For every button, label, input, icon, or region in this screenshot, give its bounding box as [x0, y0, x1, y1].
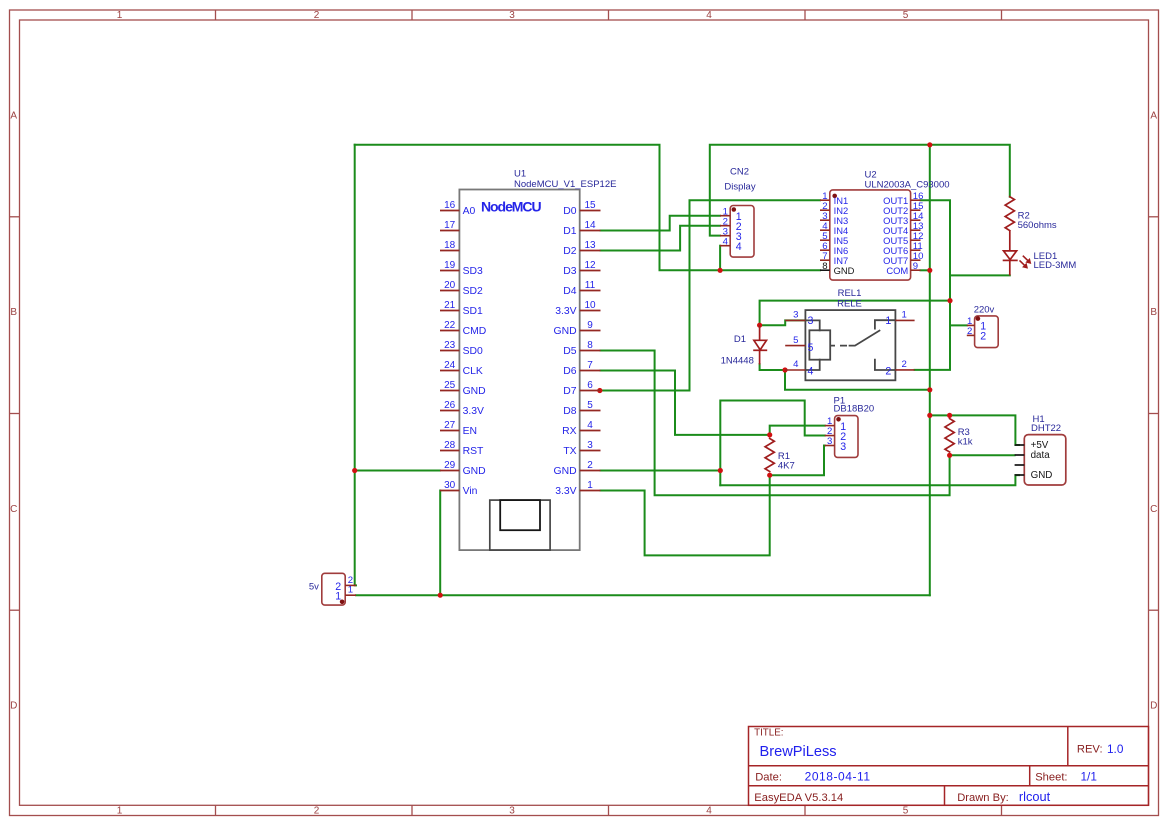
U2 pin 14 OUT3 [883, 211, 924, 226]
U1 pin 17 [440, 220, 459, 231]
U1 pin 24 [440, 360, 483, 377]
junction [947, 413, 952, 418]
svg-text:1: 1 [117, 806, 123, 817]
svg-text:1.0: 1.0 [1107, 742, 1124, 756]
svg-text:7: 7 [587, 360, 593, 371]
U2 pin 12 OUT5 [883, 231, 923, 246]
svg-text:5: 5 [808, 342, 814, 354]
REL1 pin 3 [785, 310, 813, 328]
U2 pin 2 IN2 [820, 201, 848, 216]
svg-text:3: 3 [827, 436, 832, 447]
svg-text:LED-3MM: LED-3MM [1034, 260, 1077, 271]
diode D1 1N4448 [753, 325, 767, 364]
svg-text:data: data [1031, 450, 1051, 461]
wire U1 pin29 GND to x354 vertical [355, 470, 440, 472]
svg-text:2: 2 [980, 331, 986, 343]
connector CN2 Display [730, 206, 754, 258]
junction [767, 473, 772, 478]
U2 pin 7 IN7 [820, 251, 848, 266]
svg-text:rlcout: rlcout [1019, 789, 1051, 804]
junction [718, 468, 723, 473]
svg-text:D3: D3 [563, 266, 577, 277]
svg-text:220v: 220v [974, 304, 995, 315]
svg-text:23: 23 [444, 340, 456, 351]
svg-text:28: 28 [444, 440, 456, 451]
wire GND net to H1 GND [720, 475, 1019, 485]
U1 pin 14 [563, 220, 600, 237]
svg-text:21: 21 [444, 300, 456, 311]
svg-text:13: 13 [584, 240, 596, 251]
svg-text:2: 2 [902, 359, 907, 370]
wire REL1 pin4 junction down to x930 [785, 370, 930, 390]
svg-text:5: 5 [903, 806, 909, 817]
U1 pin 5 [563, 400, 600, 417]
IC U1 NodeMCU_V1_ESP12E [459, 190, 579, 551]
svg-text:3.3V: 3.3V [463, 406, 484, 417]
wire R1 top to P1 pin1 [770, 426, 825, 435]
U1 pin 7 [563, 360, 600, 377]
svg-text:GND: GND [834, 265, 855, 276]
H1 pin 4 GND [1015, 470, 1053, 481]
220v pin 1 [967, 316, 986, 333]
U2 pin 6 IN6 [820, 241, 848, 256]
wire R3 bottom to H1 data [950, 454, 1015, 456]
svg-text:RST: RST [463, 446, 484, 457]
svg-text:17: 17 [444, 220, 456, 231]
svg-text:4: 4 [808, 366, 814, 378]
svg-text:D: D [1150, 701, 1157, 712]
svg-text:560ohms: 560ohms [1018, 220, 1057, 231]
wire D1 anode net to x950 [760, 301, 950, 326]
220v pin1 marker [976, 316, 981, 321]
svg-text:22: 22 [444, 320, 456, 331]
REL1 pin 5 [785, 335, 813, 354]
resistor R2 zigzag [1005, 197, 1014, 231]
wire U2 OUT1 down right side to REL1 pin2 [915, 200, 950, 370]
U2 pin 13 OUT4 [883, 221, 923, 236]
wire bottom rail from 5v pin1 [356, 594, 930, 596]
svg-text:1: 1 [587, 480, 593, 491]
svg-text:15: 15 [584, 200, 596, 211]
svg-text:D0: D0 [563, 206, 577, 217]
U2 pin 3 IN3 [820, 211, 848, 226]
wire U1 GND(2) to junction x720 [601, 470, 721, 472]
U1 pin 10 [555, 300, 600, 317]
U1 pin 28 [440, 440, 484, 457]
svg-text:3: 3 [509, 806, 515, 817]
svg-text:19: 19 [444, 260, 456, 271]
svg-text:TITLE:: TITLE: [754, 728, 783, 739]
U1 pin 6 [563, 380, 600, 397]
CN2 pin 3 [720, 226, 742, 243]
svg-text:10: 10 [584, 300, 596, 311]
IC U2 ULN2003A_C93000 [830, 190, 911, 280]
resistor R1 zigzag [765, 439, 774, 472]
svg-text:Drawn By:: Drawn By: [957, 792, 1009, 804]
svg-text:Date:: Date: [755, 771, 782, 783]
U2 pin 16 OUT1 [883, 191, 923, 206]
svg-text:5v: 5v [309, 582, 319, 593]
U1 pin 11 [563, 280, 600, 297]
REL1 pin 1 [885, 310, 914, 328]
wire top from CN2 pin3 corner to R2 [710, 145, 1010, 236]
svg-text:3: 3 [808, 315, 814, 327]
wire R1 bottom to P1 pin3 [770, 446, 825, 476]
junction [927, 413, 932, 418]
junction [947, 298, 952, 303]
svg-text:3: 3 [587, 440, 593, 451]
svg-text:4: 4 [793, 359, 799, 370]
wire U2 COM to x930 vertical [921, 269, 930, 271]
svg-text:9: 9 [587, 320, 593, 331]
svg-text:U1: U1 [514, 169, 526, 180]
svg-text:k1k: k1k [958, 436, 973, 447]
REL1 pin 2 [885, 359, 914, 377]
svg-text:D8: D8 [563, 406, 577, 417]
wire D1 anode to REL1 pin3 [760, 320, 806, 325]
svg-text:A: A [10, 110, 17, 121]
5v pin 1 [335, 585, 356, 603]
svg-text:5: 5 [903, 10, 909, 21]
220v pin 2 [967, 326, 986, 343]
wire x950 to 220v pin1 [950, 324, 967, 326]
junction [352, 468, 357, 473]
junction [757, 323, 762, 328]
svg-text:8: 8 [822, 261, 827, 272]
junction [927, 268, 932, 273]
svg-text:25: 25 [444, 380, 456, 391]
H1 pin 3 [1015, 464, 1025, 466]
svg-text:3: 3 [509, 10, 515, 21]
svg-text:EN: EN [463, 426, 477, 437]
svg-text:1/1: 1/1 [1081, 770, 1097, 784]
U1 pin 3 [563, 440, 600, 457]
svg-text:11: 11 [585, 280, 596, 291]
svg-text:4: 4 [736, 241, 742, 253]
svg-text:B: B [1150, 307, 1157, 318]
svg-text:29: 29 [444, 460, 456, 471]
svg-text:B: B [10, 307, 17, 318]
U1 pin 27 [440, 420, 477, 437]
U2 pin 10 OUT7 [883, 251, 923, 266]
connector 220v [975, 316, 999, 348]
CN2 pin 4 [720, 236, 742, 253]
svg-text:5: 5 [793, 335, 798, 346]
junction [927, 387, 932, 392]
5v pin 2 [335, 575, 356, 593]
junction [597, 388, 602, 393]
svg-text:4: 4 [587, 420, 593, 431]
wire LED1 cathode to x950 vertical [950, 274, 1010, 276]
svg-text:3: 3 [840, 441, 846, 453]
svg-text:1: 1 [885, 315, 891, 327]
U1 pin 15 [563, 200, 600, 217]
svg-text:COM: COM [886, 265, 908, 276]
svg-text:BrewPiLess: BrewPiLess [760, 744, 837, 760]
svg-text:3: 3 [793, 310, 798, 321]
svg-text:1: 1 [117, 10, 123, 21]
U2 pin 9 COM [886, 261, 920, 276]
U2 pin 4 IN4 [820, 221, 848, 236]
wire U1 3.3V(1) to R1 bottom [601, 475, 770, 555]
U2 pin 11 OUT6 [883, 241, 923, 256]
U1 pin 30 [440, 480, 478, 497]
svg-text:EasyEDA V5.3.14: EasyEDA V5.3.14 [754, 792, 843, 804]
svg-text:1: 1 [348, 585, 353, 596]
connector 5v [322, 573, 345, 605]
U2 pin1 marker [832, 194, 837, 199]
svg-text:D6: D6 [563, 366, 577, 377]
U2 pin 8 GND [820, 261, 855, 276]
svg-text:D7: D7 [563, 386, 577, 397]
svg-text:TX: TX [563, 446, 576, 457]
U1 pin 9 [554, 320, 601, 337]
junction [767, 432, 772, 437]
svg-text:REV:: REV: [1077, 744, 1103, 756]
wire U1 Vin(30) down to bottom rail [439, 491, 441, 596]
svg-text:2: 2 [587, 460, 593, 471]
U1 pin 18 [440, 240, 459, 251]
svg-text:4: 4 [723, 236, 729, 247]
U1 pin 23 [440, 340, 483, 357]
svg-text:CN2: CN2 [730, 167, 749, 178]
svg-text:CLK: CLK [463, 366, 483, 377]
U1 pin 21 [440, 300, 483, 317]
svg-text:RELE: RELE [837, 299, 862, 310]
junction [947, 453, 952, 458]
U1 pin 13 [563, 240, 600, 257]
U1 pin 22 [440, 320, 486, 337]
svg-text:D2: D2 [563, 246, 577, 257]
svg-text:SD3: SD3 [463, 266, 483, 277]
svg-text:ULN2003A_C93000: ULN2003A_C93000 [865, 180, 950, 191]
wire D1 cathode to REL1 pin4 [760, 364, 785, 370]
P1 pin1 marker [836, 417, 841, 422]
H1 pin 2 data [1015, 450, 1051, 461]
svg-text:GND: GND [554, 326, 577, 337]
svg-text:NodeMCU_V1_ESP12E: NodeMCU_V1_ESP12E [514, 179, 616, 190]
svg-text:D5: D5 [563, 346, 577, 357]
svg-text:1N4448: 1N4448 [721, 356, 754, 367]
CN2 pin1 marker [732, 207, 737, 212]
U1 pin 29 [440, 460, 486, 477]
svg-text:D4: D4 [563, 286, 577, 297]
svg-text:RX: RX [562, 426, 577, 437]
REL1 pin 4 [785, 359, 813, 377]
relay REL1 RELE [805, 310, 895, 380]
svg-text:3.3V: 3.3V [555, 486, 576, 497]
wire top-left from 5v net to vertical x660 [355, 145, 820, 270]
U2 pin 5 IN5 [820, 231, 848, 246]
svg-text:1: 1 [335, 591, 341, 603]
H1 pin 1 +5V [1015, 440, 1049, 451]
CN2 pin 2 [720, 216, 742, 233]
junction [927, 142, 932, 147]
svg-text:GND: GND [554, 466, 577, 477]
wire CN2 pin4 down to GND net [719, 246, 721, 271]
svg-text:14: 14 [584, 220, 596, 231]
U1 pin 8 [563, 340, 600, 357]
svg-text:GND: GND [463, 466, 486, 477]
U1 pin 16 [440, 200, 476, 217]
U1 pin 1 [555, 480, 600, 497]
U1 pin 25 [440, 380, 486, 397]
P1 pin 2 [825, 426, 846, 443]
U1 pin 4 [562, 420, 600, 437]
svg-text:REL1: REL1 [838, 288, 862, 299]
svg-text:16: 16 [444, 200, 456, 211]
svg-text:Vin: Vin [463, 486, 478, 497]
U1 pin 2 [554, 460, 601, 477]
svg-text:30: 30 [444, 480, 456, 491]
svg-text:18: 18 [444, 240, 456, 251]
junction [718, 268, 723, 273]
svg-text:24: 24 [444, 360, 456, 371]
svg-text:A0: A0 [463, 206, 476, 217]
svg-text:SD2: SD2 [463, 286, 483, 297]
svg-text:2: 2 [967, 326, 972, 337]
svg-text:1: 1 [902, 310, 907, 321]
U1 pin 19 [440, 260, 483, 277]
svg-text:2: 2 [314, 806, 320, 817]
svg-text:20: 20 [444, 280, 456, 291]
svg-text:Display: Display [724, 181, 755, 192]
svg-text:DHT22: DHT22 [1031, 423, 1061, 434]
svg-text:4: 4 [706, 10, 712, 21]
U1 pin 20 [440, 280, 483, 297]
svg-text:2018-04-11: 2018-04-11 [805, 770, 871, 784]
svg-text:GND: GND [463, 386, 486, 397]
sensor H1 DHT22 [1024, 435, 1066, 485]
U2 pin 1 IN1 [820, 191, 848, 206]
svg-text:DB18B20: DB18B20 [834, 404, 875, 415]
svg-text:12: 12 [584, 260, 596, 271]
wire R3 bottom to U1 D5(8) [601, 351, 950, 496]
U1 pin 26 [440, 400, 484, 417]
svg-text:SD1: SD1 [463, 306, 483, 317]
svg-text:4: 4 [706, 806, 712, 817]
wire left vertical x354 from top to 5v pin2 [355, 145, 356, 586]
title block [749, 727, 1149, 806]
wire main vertical x930 [929, 145, 931, 595]
svg-text:27: 27 [444, 420, 456, 431]
wire U1 D1(14) to CN2 pin1 [601, 216, 721, 231]
svg-text:C: C [10, 504, 17, 515]
junction [782, 367, 787, 372]
U1 pin 12 [563, 260, 600, 277]
LED LED1 LED-3MM [1003, 231, 1030, 276]
U2 pin 15 OUT2 [883, 201, 923, 216]
P1 pin 1 [825, 416, 846, 433]
svg-text:4K7: 4K7 [778, 460, 795, 471]
svg-text:Sheet:: Sheet: [1035, 771, 1067, 783]
svg-text:A: A [1150, 110, 1157, 121]
P1 pin 3 [825, 436, 846, 453]
svg-text:6: 6 [587, 380, 593, 391]
svg-text:D1: D1 [563, 226, 577, 237]
junction [438, 593, 443, 598]
svg-text:NodeMCU: NodeMCU [481, 199, 541, 215]
svg-text:C: C [1150, 504, 1157, 515]
svg-text:CMD: CMD [463, 326, 487, 337]
svg-text:2: 2 [885, 366, 891, 378]
svg-text:9: 9 [913, 261, 918, 272]
svg-text:3.3V: 3.3V [555, 306, 576, 317]
wire U1 D6(7) to R1 top [601, 371, 770, 435]
svg-text:5: 5 [587, 400, 593, 411]
svg-text:2: 2 [314, 10, 320, 21]
5v pin1 marker [340, 600, 345, 605]
svg-text:D1: D1 [734, 334, 746, 345]
svg-text:8: 8 [587, 340, 593, 351]
wire x720 vertical with P1 pin2 branch [720, 401, 825, 486]
svg-text:D: D [10, 701, 17, 712]
wire x930 to H1 +5V [930, 415, 1019, 445]
CN2 pin 1 [720, 206, 742, 223]
svg-text:26: 26 [444, 400, 456, 411]
wire U1 D7(6) to U2 IN1 [601, 200, 821, 390]
connector P1 DB18B20 [835, 416, 858, 458]
svg-text:SD0: SD0 [463, 346, 483, 357]
wire U1 D2(13) to CN2 pin2 [601, 226, 721, 251]
resistor R3 zigzag [945, 419, 954, 452]
svg-text:GND: GND [1031, 470, 1053, 481]
